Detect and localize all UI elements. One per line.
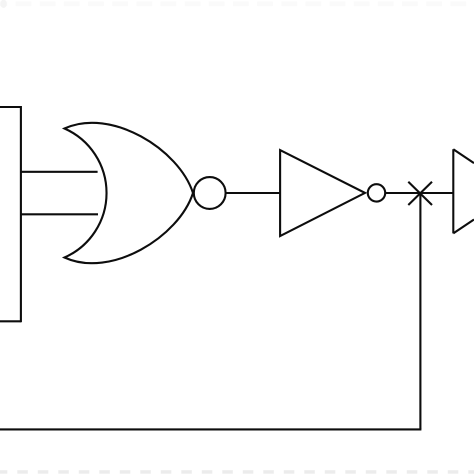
wire: NOR input B	[21, 213, 98, 215]
wire: NOR input A	[21, 171, 98, 173]
node X: crossed connection mark	[408, 182, 432, 205]
wire: left vertical bus	[20, 106, 22, 322]
NOR gate U1 output bubble	[194, 177, 226, 209]
NOR gate U1 body	[65, 123, 194, 263]
wire: inverter output to buffer input	[385, 192, 453, 194]
inverter U2 output bubble	[368, 184, 385, 201]
inverter U2 body	[280, 150, 365, 236]
wire: top-left input stub	[0, 106, 21, 108]
wire: NOR output to inverter input	[226, 192, 281, 194]
wire: feedback bottom run	[0, 428, 421, 430]
wire: feedback vertical drop	[419, 193, 421, 429]
transparency checker dashes (decorative)	[0, 0, 466, 8]
buffer U3 (clipped at right edge)	[453, 149, 474, 233]
wire: bottom-left input stub	[0, 320, 21, 322]
